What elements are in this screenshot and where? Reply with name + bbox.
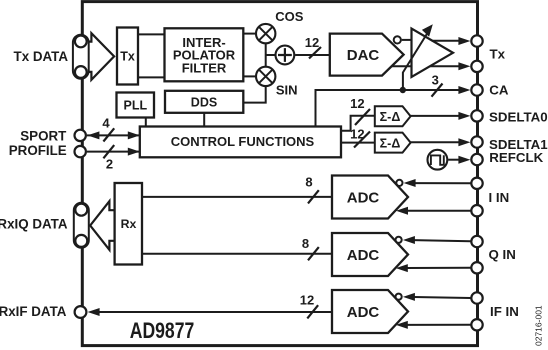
- bubble ADC3: [396, 294, 402, 300]
- svg-text:12: 12: [350, 126, 364, 141]
- port circle I IN 2: [471, 205, 482, 216]
- wire control to sigma-delta 0: [341, 116, 375, 131]
- amp top output line: [432, 40, 461, 42]
- label SDELTA1: [489, 137, 548, 152]
- port circle SDELTA0: [471, 110, 482, 121]
- bus slash 8 (Q): [308, 247, 319, 260]
- wire mixers to summer: [266, 44, 275, 66]
- svg-text:8: 8: [305, 174, 312, 189]
- label CA: [489, 82, 509, 97]
- wire Q IN bottom to ADC2: [406, 267, 470, 269]
- port circle RxIF DATA: [75, 306, 87, 318]
- bus slash 12 (sdelta1): [354, 132, 370, 148]
- mixer SIN: [256, 67, 275, 86]
- svg-text:REFCLK: REFCLK: [489, 150, 543, 165]
- label AD9877: [130, 319, 195, 343]
- wire DDS to control: [203, 113, 205, 127]
- wire control to sigma-delta 1: [341, 142, 375, 144]
- svg-text:RxIQ DATA: RxIQ DATA: [0, 216, 68, 231]
- SPORT bidirectional wire: [87, 134, 140, 136]
- svg-text:CA: CA: [489, 82, 509, 97]
- wire I IN bottom to ADC1: [407, 210, 471, 212]
- svg-text:DDS: DDS: [191, 95, 217, 109]
- wire summer to DAC: [295, 54, 330, 56]
- label Tx (port): [490, 47, 506, 62]
- wire I IN top to ADC1 bubble: [414, 182, 471, 184]
- interpolator filter block: [165, 28, 244, 81]
- svg-text:4: 4: [102, 116, 110, 131]
- wire PLL to control: [145, 118, 147, 127]
- port circle Q IN 2: [471, 262, 482, 273]
- svg-text:IF IN: IF IN: [490, 304, 519, 319]
- port capsule Tx DATA: [73, 35, 89, 79]
- ADC3 block: [332, 290, 408, 333]
- port circle Q IN 1: [471, 236, 482, 247]
- junction node on CA wire: [400, 87, 406, 93]
- Tx block: [117, 28, 138, 85]
- summer: [276, 46, 295, 65]
- arrowhead at RxIF circle: [88, 308, 100, 316]
- svg-text:DAC: DAC: [347, 47, 380, 64]
- svg-text:Rx: Rx: [121, 217, 137, 231]
- control functions block: [140, 127, 341, 158]
- label SDELTA0: [489, 110, 548, 125]
- wire filter to SIN mixer: [243, 75, 255, 77]
- svg-text:Σ-Δ: Σ-Δ: [380, 110, 401, 124]
- label IF IN: [490, 304, 519, 319]
- block arrow Rx to RxIQ: [90, 201, 115, 250]
- port circle SDELTA1: [471, 136, 482, 147]
- svg-text:PROFILE: PROFILE: [9, 143, 67, 158]
- port circle IF IN 1: [471, 292, 482, 303]
- label REFCLK: [489, 150, 543, 165]
- arrowhead at control box (SPORT): [128, 131, 140, 139]
- bus slash 3 (CA): [432, 84, 443, 97]
- wire bubble to amp: [402, 39, 412, 41]
- CA wire from control functions: [316, 90, 467, 127]
- port circle I IN 1: [471, 178, 482, 189]
- svg-text:02716-001: 02716-001: [534, 305, 544, 346]
- wire Tx DATA bus Tx box to filter (top): [138, 33, 165, 35]
- bus slash 4: [103, 128, 114, 141]
- label Q IN: [489, 247, 516, 262]
- svg-text:12: 12: [300, 293, 314, 308]
- bus ADC1 to Rx: [142, 196, 332, 198]
- arrowhead at control box (PROFILE): [128, 148, 140, 156]
- right port circles column: [471, 35, 482, 330]
- bus slash 12 (DAC input): [309, 47, 321, 58]
- label SPORT: [20, 128, 67, 143]
- DAC block: [330, 34, 404, 76]
- figure code 02716-001: [534, 305, 544, 346]
- chip boundary frame: [82, 2, 477, 346]
- svg-text:AD9877: AD9877: [130, 319, 195, 343]
- block arrow buffer Tx DATA: [87, 33, 114, 80]
- bus slash 12 (IF): [307, 305, 318, 318]
- wire sigma-delta 1 to SDELTA1 port: [411, 141, 461, 143]
- ADC1 block: [332, 176, 408, 219]
- bus slash 12 (sdelta0): [355, 109, 370, 125]
- wire oscillator to REFCLK: [448, 159, 462, 161]
- svg-text:RxIF DATA: RxIF DATA: [0, 304, 67, 319]
- bus slash 8 (I): [308, 190, 319, 203]
- svg-text:8: 8: [302, 236, 309, 251]
- label RxIF DATA: [0, 304, 67, 319]
- wire Q IN top to ADC2 bubble: [414, 240, 471, 241]
- svg-text:I IN: I IN: [489, 190, 510, 205]
- wire filter to COS mixer: [243, 33, 255, 35]
- svg-text:3: 3: [432, 72, 439, 87]
- wire sigma-delta 0 to SDELTA0 port: [411, 115, 461, 117]
- svg-text:12: 12: [350, 96, 364, 111]
- svg-text:Tx: Tx: [120, 49, 135, 63]
- port capsule RxIQ DATA: [74, 203, 89, 248]
- Rx block: [115, 183, 142, 265]
- svg-text:CONTROL FUNCTIONS: CONTROL FUNCTIONS: [171, 134, 315, 149]
- sigma-delta 1 block: [375, 133, 411, 153]
- svg-text:ADC: ADC: [347, 189, 380, 206]
- svg-text:2: 2: [106, 157, 113, 172]
- svg-text:ADC: ADC: [347, 304, 380, 321]
- bubble ADC2: [396, 237, 402, 243]
- bubble ADC1: [396, 180, 402, 186]
- svg-text:Tx: Tx: [490, 47, 506, 62]
- bus ADC2 to Rx: [142, 253, 332, 255]
- wire IF IN top to ADC3 bubble: [414, 297, 471, 298]
- port circle IF IN 2: [471, 319, 482, 330]
- mixer COS: [256, 24, 275, 43]
- oscillator symbol: [428, 150, 448, 170]
- wire Tx DATA bus Tx box to filter (bottom): [138, 76, 165, 78]
- svg-text:Σ-Δ: Σ-Δ: [380, 136, 401, 150]
- svg-text:FILTER: FILTER: [182, 60, 227, 75]
- arrowhead SDELTA1: [458, 138, 470, 146]
- port circle PROFILE: [75, 146, 86, 157]
- port circle Tx 1: [471, 35, 482, 46]
- DDS block: [165, 91, 243, 113]
- svg-text:SIN: SIN: [276, 82, 298, 97]
- svg-text:SDELTA0: SDELTA0: [489, 110, 548, 125]
- svg-text:12: 12: [305, 35, 319, 50]
- bus ADC3 to RxIF port: [98, 311, 332, 313]
- svg-text:ADC: ADC: [347, 247, 380, 264]
- PLL block: [117, 93, 155, 118]
- ADC2 block: [332, 233, 408, 276]
- bus slash 2: [103, 145, 114, 158]
- port circle Tx 2: [471, 61, 482, 72]
- DAC bottom output line: [392, 65, 462, 67]
- bubble on DAC output: [394, 36, 401, 43]
- port circle SPORT: [75, 130, 86, 141]
- port circle CA: [471, 84, 482, 95]
- arrowhead REFCLK: [458, 156, 470, 164]
- arrowhead to Tx port 2: [458, 62, 470, 70]
- wire DDS to SIN mixer: [243, 87, 265, 103]
- arrowhead CA to port: [458, 86, 470, 94]
- svg-text:PLL: PLL: [123, 99, 147, 113]
- arrowhead SDELTA0: [458, 112, 470, 120]
- sigma-delta 0 block: [375, 106, 411, 126]
- gain control arrow through amplifier: [403, 24, 433, 90]
- label I IN: [489, 190, 510, 205]
- svg-text:Tx DATA: Tx DATA: [14, 49, 69, 64]
- PROFILE wire: [87, 151, 140, 153]
- label RxIQ DATA: [0, 216, 68, 231]
- wire IF IN bottom to ADC3: [406, 324, 470, 326]
- label PROFILE: [9, 143, 67, 158]
- svg-text:SPORT: SPORT: [20, 128, 67, 143]
- arrowhead at SPORT circle: [87, 131, 99, 139]
- svg-text:COS: COS: [275, 9, 304, 24]
- arrowhead to Tx port 1: [458, 37, 470, 45]
- port circle REFCLK: [471, 154, 482, 165]
- svg-text:Q IN: Q IN: [489, 247, 516, 262]
- variable gain amplifier: [412, 29, 454, 78]
- label Tx DATA: [14, 49, 69, 64]
